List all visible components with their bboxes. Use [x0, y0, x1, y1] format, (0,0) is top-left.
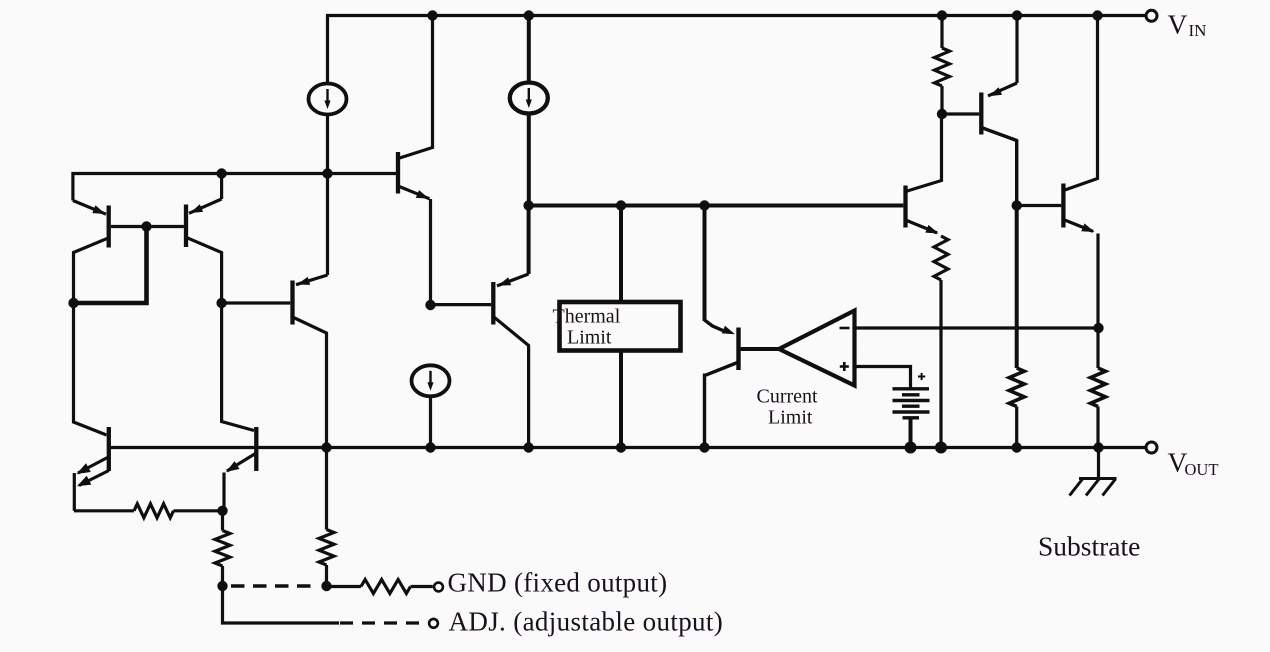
transistor Q8 collector: [74, 303, 107, 435]
wire: VIN rail to I2: [527, 16, 531, 84]
resistor R7: [134, 504, 173, 518]
svg-text:Limit: Limit: [567, 327, 612, 349]
resistor R6: [319, 530, 334, 566]
terminal VIN: [1146, 10, 1157, 21]
node Z (GND node): [321, 581, 331, 591]
wire: node K to thermal box: [619, 206, 623, 301]
transistor Q9 collector: [222, 303, 254, 431]
transistor Q10 emitter: [988, 16, 1017, 97]
resistor R1: [935, 48, 950, 86]
transistor Q6 emitter: [705, 320, 736, 334]
wire: node X to R5: [221, 511, 224, 531]
transistor Q11 emitter: [1063, 220, 1098, 369]
transistor Q1 emitter: [73, 201, 106, 215]
wire: node G to Q5 base: [431, 303, 492, 306]
transistor Q5 emitter: [497, 206, 529, 286]
wire: node T down to R3: [1015, 206, 1019, 369]
transistor Q5 bar: [491, 282, 495, 325]
wire I3 to VOUT rail: [429, 396, 432, 448]
wire: R3 to VOUT rail: [1015, 407, 1018, 448]
transistor Q5 collector: [493, 317, 528, 448]
transistor Q8 emitter 2: [77, 471, 109, 487]
transistor Q4 emitter: [398, 186, 431, 305]
wire: U1 plus input: [855, 367, 911, 390]
wire: left column join: [74, 301, 147, 304]
svg-text:GND (fixed output): GND (fixed output): [448, 568, 668, 598]
wire: VOUT rail: [109, 446, 1147, 449]
node rail-1 (Q3 collector): [321, 442, 331, 452]
transistor Q2 collector: [186, 237, 222, 303]
resistor R3: [1009, 368, 1024, 406]
wire: Q8 emitters down: [73, 473, 76, 511]
node G (Q4 emitter/Q5 base junction): [425, 300, 435, 310]
transistor Q8 bar: [107, 427, 111, 471]
wire: node W to ground: [1097, 448, 1100, 479]
transistor Q2 base: [147, 225, 184, 228]
transistor Q6 collector: [705, 363, 738, 448]
transistor Q4 collector: [398, 16, 433, 159]
resistor R4: [1091, 368, 1106, 406]
transistor Q6 bar: [736, 328, 740, 371]
wire: R5 to node Y: [221, 566, 224, 586]
transistor Q8 emitter 1: [77, 458, 108, 475]
node rail-4 (thermal): [616, 442, 626, 452]
node B (Q2 emitter junction): [216, 168, 226, 178]
node M (minus input tap): [1093, 323, 1103, 333]
transistor Q6 base: [741, 347, 779, 351]
wire: node Z to R8: [327, 585, 362, 588]
wire: R1 to node Q: [940, 86, 943, 114]
transistor Q10 bar: [979, 93, 983, 135]
transistor Q11 collector: [1063, 16, 1097, 191]
transistor Q1 base: [111, 225, 147, 228]
label Substrate: [1038, 530, 1140, 561]
transistor Q1 bar: [107, 206, 111, 248]
current source I2: [510, 83, 548, 114]
wire: dashed node Y to node Z: [231, 584, 318, 588]
wire: Q8 emitter to R7: [74, 509, 134, 512]
node E (Q2 collector node): [216, 298, 226, 308]
battery B1 reference: [893, 389, 930, 418]
transistor Q1 collector: [74, 238, 109, 303]
wire I1 to node A: [326, 113, 329, 174]
label ADJ. (adjustable output): [449, 606, 724, 636]
node P (R1 at VIN rail): [937, 10, 947, 20]
terminal GND: [434, 583, 443, 592]
wire: R7 to node X: [174, 509, 225, 512]
label GND (fixed output): [448, 568, 668, 598]
transistor Q2 emitter: [189, 174, 222, 214]
node rail-5 (Q6 collector): [699, 442, 709, 452]
wire: base tie down-left: [76, 227, 147, 304]
wire: R8 to GND terminal: [411, 585, 433, 588]
transistor Q11 bar: [1061, 184, 1065, 228]
wire: node L down: [703, 206, 707, 322]
svg-text:Limit: Limit: [768, 406, 813, 428]
wire: dashed ADJ: [340, 621, 424, 624]
resistor R2 (Q7 emitter): [934, 236, 948, 280]
node C (Q1/Q2 base tie): [141, 221, 151, 231]
wire: R6 to node Z: [325, 565, 328, 586]
svg-text:Thermal: Thermal: [553, 306, 621, 328]
transistor Q7 bar: [903, 186, 907, 228]
svg-text:Substrate: Substrate: [1038, 530, 1140, 561]
wire: VIN rail to R1: [940, 16, 943, 49]
battery B1 plus mark: [918, 373, 925, 380]
node N (battery at VOUT rail): [905, 442, 917, 454]
wire: battery to VOUT rail: [909, 418, 913, 448]
terminal ADJ: [429, 619, 438, 628]
wire: node E to Q3 base: [222, 301, 291, 304]
terminal VOUT: [1146, 442, 1157, 453]
node rail-2 (I3): [425, 442, 435, 452]
node S (Q10 emitter at VIN rail): [1012, 10, 1022, 20]
wire: R2 to VOUT rail: [939, 280, 942, 448]
svg-text:ADJ. (adjustable output): ADJ. (adjustable output): [449, 606, 724, 636]
node H (I2 at VIN rail): [524, 10, 534, 20]
wire: node Q to Q10 base: [942, 112, 979, 115]
wire I2 to node J: [527, 113, 531, 206]
transistor Q2 bar: [184, 205, 188, 248]
transistor Q3 emitter: [296, 174, 328, 285]
wire: R4 to VOUT rail: [1096, 407, 1099, 448]
transistor Q3 collector: [293, 317, 327, 448]
block: Thermal Limit box: [560, 302, 681, 351]
U1 minus symbol: [840, 327, 850, 330]
node L (Q6 emitter tap): [699, 200, 709, 210]
node V (R3 at VOUT rail): [1012, 442, 1022, 452]
label Current Limit: [757, 385, 819, 428]
wire: VIN top rail: [328, 16, 1147, 84]
node J (Q5 emitter/mid rail junction): [523, 200, 533, 210]
node W (R4 at VOUT rail): [1093, 442, 1103, 452]
svg-text:IN: IN: [1189, 21, 1207, 40]
U1 plus symbol: [840, 362, 849, 371]
current source I1: [309, 84, 347, 115]
wire: bias rail y173: [73, 174, 397, 201]
resistor R8: [361, 580, 411, 594]
transistor Q4 bar: [396, 152, 400, 194]
node Q (R1/Q10 base/Q7 collector): [937, 109, 947, 119]
node U (Q11 collector at VIN rail): [1092, 10, 1102, 20]
node R (R2 at VOUT rail): [935, 442, 947, 454]
wire: thermal box to VOUT rail: [619, 353, 623, 448]
node K (thermal limit tap): [616, 200, 626, 210]
node rail-3 (Q5 collector): [523, 442, 533, 452]
wire: node T to Q11 base: [1017, 204, 1062, 207]
transistor Q10 collector: [981, 128, 1016, 206]
svg-text:Current: Current: [757, 385, 819, 407]
wire: U1 minus input: [855, 326, 1099, 329]
node T (Q10 collector/Q11 base): [1012, 200, 1022, 210]
wire: node Y to ADJ row: [223, 586, 340, 623]
label VIN: [1168, 9, 1207, 40]
svg-text:V: V: [1168, 9, 1188, 40]
transistor Q9 emitter: [224, 453, 256, 511]
node X (R5 top): [217, 506, 227, 516]
current source I3: [412, 365, 450, 396]
wire: Q3 collector rail to R6: [325, 448, 328, 530]
node F (Q4 collector at VIN rail): [427, 10, 437, 20]
label Thermal Limit: [553, 306, 621, 349]
ground (substrate): [1070, 479, 1117, 496]
node D (Q1 collector/diode tie): [68, 298, 78, 308]
transistor Q7 emitter: [906, 220, 939, 234]
svg-text:OUT: OUT: [1185, 460, 1219, 479]
transistor Q7 collector: [906, 114, 942, 192]
transistor Q9 bar: [254, 427, 258, 471]
op-amp U1 (current limit comparator): [779, 311, 855, 386]
resistor R5: [215, 531, 230, 567]
transistor Q3 bar: [290, 281, 294, 325]
label VOUT: [1168, 446, 1219, 479]
node A (I1/bias rail junction): [322, 168, 332, 178]
node Y (GND dashed tie left): [217, 581, 227, 591]
wire: mid rail y205: [529, 204, 904, 208]
